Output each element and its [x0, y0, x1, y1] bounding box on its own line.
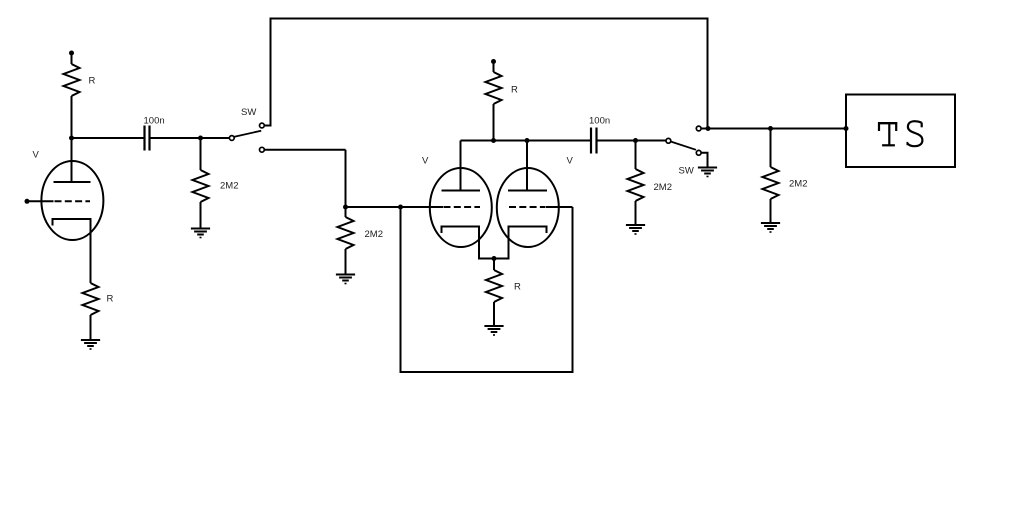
svg-text:R: R [511, 85, 518, 96]
svg-text:SW: SW [679, 166, 694, 177]
svg-text:R: R [107, 294, 114, 305]
svg-text:2M2: 2M2 [220, 181, 238, 192]
svg-text:SW: SW [241, 107, 256, 118]
svg-text:2M2: 2M2 [654, 182, 672, 193]
svg-text:2M2: 2M2 [789, 179, 807, 190]
svg-text:100n: 100n [144, 116, 165, 127]
svg-text:V: V [422, 156, 429, 167]
svg-text:V: V [33, 150, 40, 161]
svg-text:100n: 100n [589, 116, 610, 127]
svg-text:V: V [567, 156, 574, 167]
svg-text:R: R [514, 282, 521, 293]
svg-text:R: R [89, 76, 96, 87]
svg-text:2M2: 2M2 [365, 229, 383, 240]
